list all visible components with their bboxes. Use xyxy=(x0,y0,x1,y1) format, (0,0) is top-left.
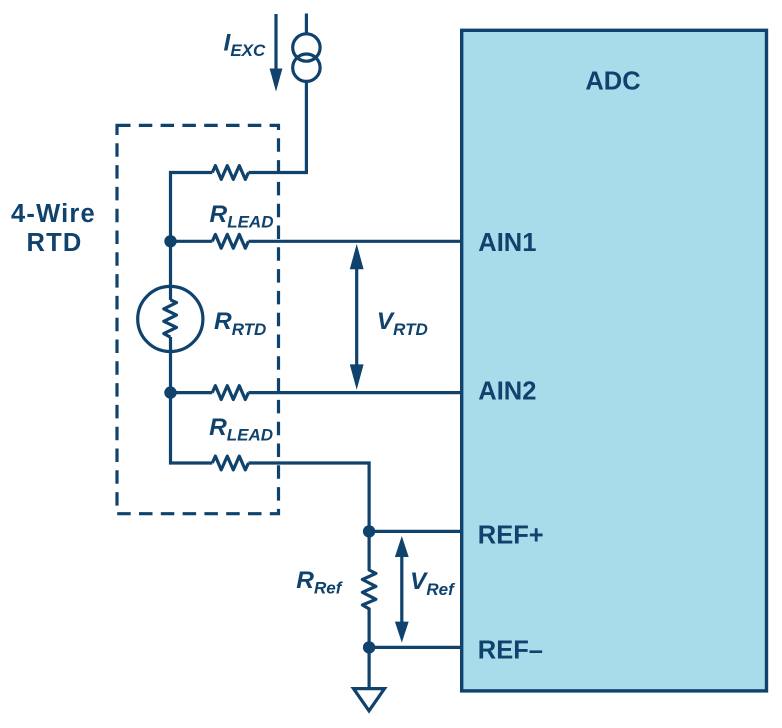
arrow IEXC current direction xyxy=(270,14,283,92)
svg-text:ADC: ADC xyxy=(585,67,640,95)
svg-text:RRef: RRef xyxy=(296,567,343,598)
resistor RRef xyxy=(362,531,376,647)
label RRTD xyxy=(214,308,266,339)
svg-text:RRTD: RRTD xyxy=(214,308,266,339)
VRef measurement arrow xyxy=(395,536,409,643)
node junction REF- xyxy=(363,641,375,653)
label RRef xyxy=(296,567,343,598)
node junction AIN1 xyxy=(164,235,176,247)
label RLEAD2 xyxy=(209,414,273,445)
label VRef xyxy=(410,568,456,599)
wire bottom lead to REF+ node xyxy=(249,463,370,531)
current source IEXC xyxy=(293,14,320,82)
svg-text:RLEAD: RLEAD xyxy=(209,414,273,445)
wire REF- to ADC xyxy=(369,646,462,649)
wire REF+ to ADC xyxy=(369,530,462,533)
label RLEAD1 xyxy=(210,201,274,232)
label 4-Wire RTD xyxy=(11,200,96,257)
svg-text:4-Wire: 4-Wire xyxy=(11,200,96,228)
svg-text:VRef: VRef xyxy=(410,568,456,599)
VRTD measurement arrow xyxy=(350,244,364,390)
label VRTD xyxy=(377,308,428,339)
node junction REF+ xyxy=(363,525,375,537)
pin label REF+ xyxy=(478,522,544,550)
pin label AIN2 xyxy=(478,378,536,406)
left bus lower segment xyxy=(171,337,213,463)
wire AIN1 left xyxy=(171,240,213,243)
wire AIN1 to ADC xyxy=(249,240,462,243)
ADC box U1 xyxy=(462,30,767,691)
svg-text:REF–: REF– xyxy=(478,637,543,665)
svg-text:REF+: REF+ xyxy=(478,522,544,550)
ADC label xyxy=(585,67,640,95)
svg-text:RLEAD: RLEAD xyxy=(210,201,274,232)
svg-text:RTD: RTD xyxy=(26,229,82,257)
RTD sensor circle RRTD xyxy=(138,286,203,351)
dashed 4-wire RTD enclosure xyxy=(117,125,279,513)
node junction AIN2 xyxy=(164,386,176,398)
svg-text:VRTD: VRTD xyxy=(377,308,428,339)
svg-text:AIN2: AIN2 xyxy=(478,378,536,406)
wire from current source to top lead resistor xyxy=(249,81,307,172)
svg-text:IEXC: IEXC xyxy=(224,29,266,60)
label IEXC xyxy=(224,29,266,60)
resistor RLEAD top (unlabeled lead) xyxy=(212,166,248,180)
pin label REF- xyxy=(478,637,543,665)
pin label AIN1 xyxy=(478,229,536,257)
resistor RLEAD1 xyxy=(212,234,248,248)
resistor RLEAD bottom (unlabeled lead) xyxy=(212,456,248,470)
wire AIN2 left xyxy=(171,391,213,394)
svg-text:AIN1: AIN1 xyxy=(478,229,536,257)
resistor RLEAD2 xyxy=(212,386,248,400)
wire AIN2 to ADC xyxy=(249,391,462,394)
ground xyxy=(354,647,385,710)
wire top corner to left bus xyxy=(171,173,213,301)
